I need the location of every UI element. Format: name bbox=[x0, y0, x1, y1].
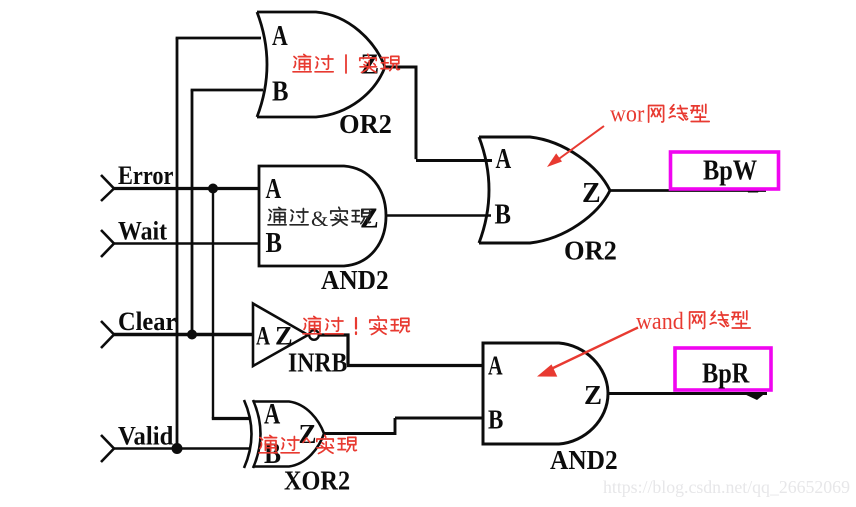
leader arrow to U5 (wor) bbox=[547, 126, 604, 167]
svg-text:Valid: Valid bbox=[118, 422, 173, 451]
wire net Valid vertical riser to U1.A bbox=[176, 38, 179, 449]
inverter U3 INRB bbox=[253, 304, 308, 367]
svg-text:Z: Z bbox=[299, 419, 317, 449]
wire U3.Z to U6.A bbox=[319, 335, 483, 366]
annotation wor网线型 (red) bbox=[610, 100, 709, 127]
or-gate U5 OR2 (right) bbox=[479, 137, 610, 243]
svg-text:wand: wand bbox=[636, 307, 684, 334]
wire net Clear vertical riser to U1.B bbox=[191, 90, 194, 335]
svg-text:OR2: OR2 bbox=[339, 109, 392, 139]
output box BpR bbox=[675, 348, 771, 390]
svg-text:B: B bbox=[272, 75, 288, 107]
wire U5.Z to output BpW bbox=[610, 189, 766, 192]
svg-text:A: A bbox=[264, 396, 280, 430]
wire net Error into U4.A bbox=[212, 417, 251, 420]
output box BpW bbox=[671, 152, 779, 189]
or-gate U1 OR2 (top) bbox=[257, 12, 385, 117]
wire net Error to U2.A bbox=[114, 187, 258, 190]
svg-text:B: B bbox=[266, 226, 282, 258]
wire net Valid to U4.B bbox=[114, 447, 250, 449]
and-gate U2 AND2 (middle) bbox=[259, 166, 386, 266]
svg-text:Z: Z bbox=[275, 321, 293, 351]
svg-text:A: A bbox=[272, 19, 288, 52]
wire U6.Z to output BpR bbox=[608, 392, 767, 395]
svg-text:A: A bbox=[488, 352, 503, 381]
svg-text:BpR: BpR bbox=[702, 358, 750, 389]
wire net Clear to U3.A bbox=[114, 333, 252, 336]
svg-text:https://blog.csdn.net/qq_26652: https://blog.csdn.net/qq_26652069 bbox=[603, 477, 850, 497]
annotation 通过｜实现 (red, on U1) bbox=[293, 54, 399, 73]
wire U1.Z to U5.A bbox=[385, 67, 492, 161]
value label 通过&实现 (black annotation) bbox=[268, 206, 370, 231]
svg-text:Wait: Wait bbox=[118, 218, 168, 246]
wire end arrowhead BpW bbox=[746, 187, 762, 193]
input port Valid bbox=[101, 422, 173, 462]
svg-text:BpW: BpW bbox=[703, 155, 757, 186]
xor-gate U4 XOR2 bbox=[244, 400, 324, 468]
svg-text:B: B bbox=[488, 406, 504, 435]
bubble U3 output bbox=[309, 330, 319, 340]
annotation 通过！实现 (red, on U3) bbox=[303, 316, 409, 334]
wire U4.Z to U6.B bbox=[324, 418, 483, 434]
svg-text:INRB: INRB bbox=[288, 347, 347, 378]
wire net Error vertical drop to XOR2.A bbox=[212, 189, 214, 419]
svg-text:Z: Z bbox=[582, 178, 601, 209]
svg-text:B: B bbox=[495, 198, 511, 230]
svg-text:XOR2: XOR2 bbox=[284, 465, 350, 495]
svg-text:OR2: OR2 bbox=[564, 235, 617, 265]
svg-text:A: A bbox=[266, 172, 282, 205]
input port Error bbox=[101, 161, 174, 201]
svg-text:Clear: Clear bbox=[118, 308, 176, 336]
svg-text:B: B bbox=[264, 437, 281, 470]
input port Wait bbox=[101, 218, 168, 257]
svg-text:A: A bbox=[496, 142, 512, 175]
svg-text:AND2: AND2 bbox=[321, 265, 389, 295]
svg-text:A: A bbox=[256, 322, 270, 350]
svg-text:wor: wor bbox=[610, 100, 645, 127]
svg-text:Z: Z bbox=[584, 380, 602, 410]
leader arrow to U6 (wand) bbox=[537, 328, 638, 377]
junction on net Error bbox=[208, 184, 218, 194]
svg-text:Z: Z bbox=[360, 204, 379, 235]
svg-text:&: & bbox=[311, 206, 328, 231]
wire net Wait to U2.B bbox=[114, 242, 258, 244]
wire net Clear into U1.B bbox=[191, 89, 263, 92]
input port Clear bbox=[101, 308, 176, 348]
wire U2.Z to U5.B bbox=[386, 214, 491, 217]
junction on net Valid bbox=[172, 443, 183, 454]
wire net Valid into U1.A bbox=[176, 37, 261, 40]
wire end arrowhead BpR bbox=[741, 393, 766, 401]
svg-text:Error: Error bbox=[118, 161, 174, 190]
and-gate U6 AND2 (bottom) bbox=[483, 343, 608, 444]
svg-text:AND2: AND2 bbox=[550, 445, 618, 475]
junction on net Clear bbox=[187, 330, 197, 340]
annotation 通过^实现 (red, on U4) bbox=[259, 435, 356, 453]
annotation wand网线型 (red) bbox=[636, 307, 750, 334]
